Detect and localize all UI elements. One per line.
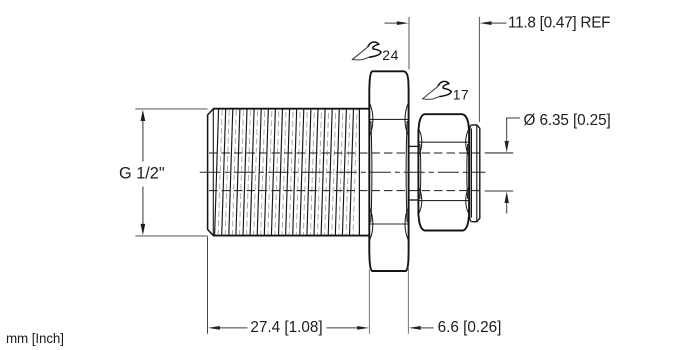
svg-text:G 1/2": G 1/2" [119,165,165,183]
extension line upper [485,152,514,154]
arrowhead pointing right [397,21,409,25]
hex nut 17 outline [418,114,469,230]
arrowhead up [141,110,146,121]
hex corner line upper [370,118,408,120]
leader horizontal [506,117,520,119]
dimension line lower segment [142,187,144,225]
thread G1/2 hatch (crest lines) [215,109,357,236]
arrowhead pointing up [505,192,509,204]
arrowhead pointing left [480,21,492,25]
chamfer edge line [212,109,214,236]
arrowhead pointing left [208,326,220,330]
svg-text:6.6 [0.26]: 6.6 [0.26] [438,319,502,336]
dimension line left segment [220,327,248,329]
arrowhead pointing left [409,326,421,330]
top silhouette edge [213,108,369,110]
centerline [200,171,486,173]
leader vertical [506,118,508,141]
left end face with chamfer [208,109,214,236]
chamfer lens arcs left [370,103,373,136]
dimension 27.4 [1.08] thread length [208,237,370,337]
dimension 6.6 [0.26] nut thickness [408,266,501,336]
lower arrow tail [506,203,508,214]
ferrule / tube end [470,125,480,222]
dimension Ø 6.35 [0.25] tube bore [485,112,611,213]
dimension G 1/2" [119,109,208,236]
hex nut 24 outline [369,71,408,271]
arrowhead pointing down [505,141,509,153]
face chamfer arcs mid [371,121,372,222]
dimension 11.8 [0.47] REF [385,14,611,122]
wrench icon 24 [352,42,381,60]
extension line right [368,269,370,333]
extension line right [407,266,409,334]
extension line top [135,108,207,110]
svg-text:11.8 [0.47] REF: 11.8 [0.47] REF [508,14,610,31]
wrench icon 17 [423,81,452,99]
dimension line right segment [327,327,358,329]
bottom silhouette edge [213,235,369,237]
svg-text:24: 24 [382,47,399,63]
bore hidden line bottom [209,190,480,192]
neck between nuts [408,146,418,200]
svg-text:17: 17 [453,86,469,102]
dimension line upper segment [142,120,144,162]
threaded body G1/2 outline [208,109,370,236]
arrowhead down [141,224,146,235]
thread runout line [358,109,360,236]
arrowhead pointing right [357,326,369,330]
bore hidden line top [209,152,480,154]
svg-text:mm [Inch]: mm [Inch] [6,331,64,346]
extension line at nut face [408,17,410,70]
svg-text:Ø 6.35 [0.25]: Ø 6.35 [0.25] [524,112,611,129]
right arrow tail [492,22,507,24]
extension line bottom [135,235,207,237]
extension line left [207,237,209,334]
svg-text:27.4 [1.08]: 27.4 [1.08] [250,319,322,336]
extension line at tube end [478,17,480,122]
left arrow tail [385,22,398,24]
extension line lower [485,190,514,192]
arrow tail [421,327,434,329]
hex corner line lower [370,223,408,225]
